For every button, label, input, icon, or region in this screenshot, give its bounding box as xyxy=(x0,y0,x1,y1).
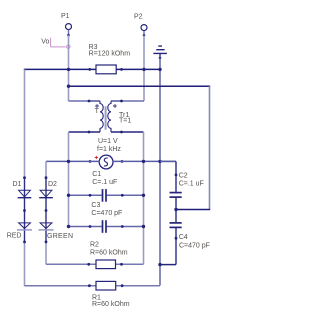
resistor R3 xyxy=(88,44,130,74)
svg-text:Vo: Vo xyxy=(41,38,49,45)
wire source net y=161.4 left xyxy=(46,160,100,162)
port P1 xyxy=(61,13,72,37)
capacitor C4 xyxy=(170,210,210,265)
junction P1/mid net xyxy=(67,85,70,88)
junction source left xyxy=(67,160,70,163)
svg-text:C=.1 uF: C=.1 uF xyxy=(179,180,204,187)
resistor R2 xyxy=(46,242,144,269)
transformer Tr1 xyxy=(88,100,132,134)
svg-text:C=470 pF: C=470 pF xyxy=(179,242,210,249)
wire P2 down xyxy=(143,35,145,101)
svg-text:C=.1 uF: C=.1 uF xyxy=(92,179,117,186)
junction P1/top net xyxy=(67,68,70,71)
diode D2 xyxy=(39,176,74,243)
svg-text:R=60 kOhm: R=60 kOhm xyxy=(90,250,128,257)
wire source bus x=143.5 xyxy=(143,132,145,264)
svg-text:f=1 kHz: f=1 kHz xyxy=(97,146,121,153)
junction ground/top net xyxy=(158,68,161,71)
node label Vo xyxy=(41,38,70,49)
svg-text:C1: C1 xyxy=(92,171,101,178)
wire C4 bottom branch xyxy=(160,264,176,266)
wire source net y=161.4 right xyxy=(112,160,176,162)
svg-text:P1: P1 xyxy=(61,13,70,20)
diode D1 xyxy=(7,176,32,243)
wire ground bus x=160 xyxy=(159,58,161,286)
svg-text:RED: RED xyxy=(7,232,22,239)
capacitor C2 xyxy=(160,161,204,209)
junction C1 left xyxy=(67,194,70,197)
wire C2/C4 branch to right bus xyxy=(176,209,210,211)
wire transformer bottom-right xyxy=(111,131,144,133)
svg-text:R2: R2 xyxy=(90,242,99,249)
svg-text:T=1: T=1 xyxy=(119,118,131,125)
svg-text:D2: D2 xyxy=(48,181,57,188)
wire transformer top-right xyxy=(122,100,145,102)
svg-text:P2: P2 xyxy=(134,14,143,21)
port P2 xyxy=(134,14,147,37)
svg-text:C=470 pF: C=470 pF xyxy=(91,210,122,217)
junction source right x=143.5 xyxy=(142,160,145,163)
junction C3 right xyxy=(142,225,145,228)
wire D2 bus x=46 upper xyxy=(45,161,47,177)
wire top net y=69.4 left xyxy=(24,68,96,70)
resistor R1 xyxy=(25,281,161,308)
ground xyxy=(153,46,167,59)
wire right bus x=209.5 xyxy=(209,86,211,209)
svg-text:C4: C4 xyxy=(179,234,188,241)
capacitor C1 xyxy=(69,171,144,202)
junction source right x=160 xyxy=(158,160,161,163)
lead transformer top-left xyxy=(89,100,100,102)
wire transformer top-left xyxy=(69,100,90,102)
wire left mid bus down xyxy=(68,132,70,227)
wire y=86.2 across xyxy=(69,85,211,87)
wire transformer bottom-left xyxy=(69,131,101,133)
wire D1 bus x=24.5 lower xyxy=(24,242,26,286)
voltage source V1 xyxy=(89,138,124,169)
svg-text:C3: C3 xyxy=(91,202,100,209)
wire D2 bus x=46 lower xyxy=(45,242,47,264)
capacitor C3 xyxy=(69,202,144,233)
svg-text:GREEN: GREEN xyxy=(47,233,73,240)
junction x160/C4 xyxy=(158,263,161,266)
svg-text:T: T xyxy=(95,108,100,115)
junction P2/top net xyxy=(142,68,145,71)
wire P1 down xyxy=(68,35,70,101)
lead transformer top-right xyxy=(111,100,122,102)
svg-text:D1: D1 xyxy=(13,181,22,188)
svg-text:R=60 kOhm: R=60 kOhm xyxy=(92,301,130,308)
svg-text:C2: C2 xyxy=(179,173,188,180)
svg-text:R=120 kOhm: R=120 kOhm xyxy=(89,51,131,58)
svg-text:U=1 V: U=1 V xyxy=(98,138,118,145)
junction C2/C4/right bus xyxy=(174,208,177,211)
junction C1 right xyxy=(142,194,145,197)
junction C3 left xyxy=(67,225,70,228)
wire top net y=69.4 right xyxy=(116,68,160,70)
wire D1 bus x=24.5 upper xyxy=(24,69,26,177)
